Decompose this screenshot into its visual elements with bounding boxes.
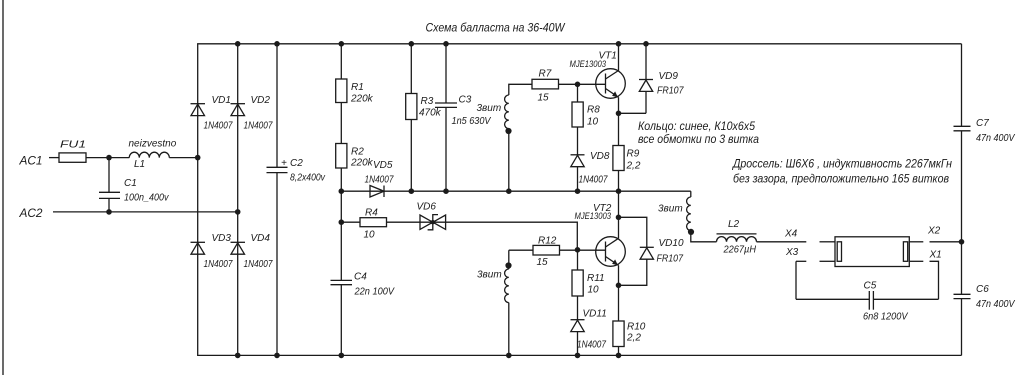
- svg-text:2,2: 2,2: [626, 333, 641, 344]
- svg-text:FU1: FU1: [60, 140, 86, 151]
- winding w3 (3 turns, VT2 drive): [477, 250, 509, 355]
- junction VD4 bottom bus: [235, 353, 241, 359]
- svg-text:все обмотки по 3 витка: все обмотки по 3 витка: [638, 132, 759, 146]
- svg-text:Дроссель: Ш6Х6 , индуктивность: Дроссель: Ш6Х6 , индуктивность 2267мкГн: [731, 157, 952, 171]
- svg-text:2267µH: 2267µH: [723, 245, 757, 256]
- diode VD11 1N4007: [571, 309, 607, 356]
- junction C2 top bus: [274, 41, 280, 47]
- junction R3 top bus: [409, 41, 415, 47]
- svg-text:10: 10: [587, 117, 599, 128]
- svg-text:Кольцо: синее, К10х6х5: Кольцо: синее, К10х6х5: [638, 119, 755, 133]
- svg-text:C6: C6: [976, 284, 989, 295]
- junction VD2 top bus: [235, 41, 241, 47]
- wire VT2 collector: [618, 217, 620, 238]
- resistor R8 10: [572, 84, 600, 155]
- capacitor C3 1n5 630V: [435, 44, 492, 191]
- transistor VT2 MJE13003: [575, 203, 626, 266]
- resistor R7 15: [532, 79, 559, 89]
- diode VD9 FR107: [639, 44, 684, 114]
- wire VT2 emitter to node: [618, 265, 620, 285]
- resistor R9 2,2: [613, 113, 641, 191]
- junction R4 branch: [339, 219, 345, 225]
- capacitor C1: [99, 158, 169, 212]
- diode VD4 1N4007: [231, 233, 273, 270]
- svg-text:1N4007: 1N4007: [365, 174, 394, 185]
- svg-text:15: 15: [538, 92, 550, 103]
- svg-text:8,2x400v: 8,2x400v: [290, 173, 326, 184]
- svg-text:AC1: AC1: [19, 154, 43, 168]
- svg-text:1N4007: 1N4007: [579, 174, 608, 185]
- svg-text:FR107: FR107: [657, 86, 684, 97]
- wire VT1 collector to top bus: [618, 44, 620, 71]
- junction midline/R3: [409, 188, 415, 194]
- transistor VT1 MJE13003: [570, 51, 626, 99]
- resistor R1 220k: [336, 79, 347, 103]
- svg-text:1N4007: 1N4007: [244, 259, 273, 270]
- wire X3 to C5 loop: [795, 261, 797, 299]
- diode VD3 1N4007: [191, 233, 233, 270]
- svg-text:47n 400V: 47n 400V: [976, 133, 1016, 144]
- wire emitter node to VD9: [619, 112, 647, 114]
- wire top bus / left bridge column / bottom bus: [198, 44, 962, 356]
- junction VT1 base / R8: [575, 82, 581, 88]
- resistor R12 15: [533, 245, 560, 255]
- junction VT2 base: [575, 247, 581, 253]
- wire L2 to X4: [757, 241, 807, 243]
- wire R1 to R2: [340, 103, 342, 144]
- svg-text:FR107: FR107: [657, 254, 684, 265]
- svg-text:1n5 630V: 1n5 630V: [452, 116, 492, 127]
- svg-text:470k: 470k: [419, 108, 442, 119]
- junction AC2/bridge: [235, 209, 241, 215]
- lamp EL1: [820, 237, 924, 267]
- svg-text:C5: C5: [864, 280, 877, 291]
- junction midline/R2 column: [339, 188, 345, 194]
- svg-text:1N4007: 1N4007: [577, 340, 606, 351]
- junction C2 bottom bus: [274, 353, 280, 359]
- wire FU1 to C1 node: [86, 157, 129, 159]
- svg-text:X2: X2: [927, 225, 941, 236]
- inductor L1: [129, 152, 169, 157]
- svg-text:10: 10: [588, 285, 600, 296]
- svg-text:6n8 1200V: 6n8 1200V: [863, 312, 909, 323]
- svg-text:X3: X3: [785, 247, 799, 258]
- resistor R4 10: [360, 218, 387, 227]
- svg-text:VD4: VD4: [251, 233, 271, 244]
- svg-text:L1: L1: [134, 159, 145, 170]
- svg-text:R7: R7: [539, 68, 552, 79]
- svg-text:neizvestno: neizvestno: [129, 139, 177, 150]
- diode VD1 1N4007: [191, 95, 233, 132]
- svg-text:C3: C3: [459, 94, 472, 105]
- junction midline/VD8: [575, 188, 581, 194]
- svg-text:C1: C1: [124, 178, 137, 189]
- svg-text:MJE13003: MJE13003: [575, 210, 612, 221]
- wire R4 branch vertical: [340, 191, 342, 222]
- phase dot w2: [688, 229, 694, 235]
- resistor R10 2,2: [613, 285, 646, 355]
- wire R7 to VT1 base: [559, 83, 606, 85]
- junction AC1/bridge: [195, 155, 201, 161]
- svg-text:1N4007: 1N4007: [204, 121, 233, 132]
- svg-text:220k: 220k: [350, 94, 374, 105]
- wire R12 to VT2 base: [560, 249, 606, 251]
- junction R1 top bus: [339, 41, 345, 47]
- wire R1/R2 column top: [340, 44, 342, 79]
- svg-text:3вит: 3вит: [477, 269, 502, 280]
- inductor L2 2267uH: [717, 219, 757, 256]
- svg-text:15: 15: [537, 257, 549, 268]
- wire X2 to right bus: [930, 241, 962, 243]
- svg-text:R1: R1: [351, 82, 364, 93]
- svg-text:R9: R9: [627, 149, 640, 160]
- junction w3 bottom bus: [506, 353, 512, 359]
- capacitor C5 6n8 1200V: [796, 280, 939, 322]
- svg-text:X1: X1: [929, 249, 942, 260]
- wire VT1 emitter to node: [618, 97, 620, 113]
- svg-text:100n_400v: 100n_400v: [124, 193, 169, 204]
- diac VD6: [417, 202, 446, 230]
- svg-text:VD2: VD2: [251, 95, 271, 106]
- svg-text:VD11: VD11: [583, 309, 607, 320]
- wire X3 stub: [796, 260, 806, 262]
- junction C1/AC2: [106, 209, 112, 215]
- svg-text:R2: R2: [351, 147, 364, 158]
- diode VD2 1N4007: [231, 95, 273, 132]
- junction R10 bottom bus: [616, 353, 622, 359]
- svg-text:MJE13003: MJE13003: [570, 58, 607, 69]
- svg-text:C4: C4: [354, 272, 367, 283]
- wire R4 row left: [341, 221, 360, 223]
- svg-text:без зазора, предположительно 1: без зазора, предположительно 165 витков: [733, 172, 949, 186]
- svg-text:Схема балласта на 36-40W: Схема балласта на 36-40W: [426, 20, 566, 34]
- wire midline (half-bridge midpoint): [341, 190, 691, 192]
- diode VD8 1N4007: [571, 151, 610, 191]
- wire VT2 collector node to VD10: [619, 217, 647, 247]
- svg-text:R4: R4: [365, 208, 378, 219]
- svg-text:C2: C2: [290, 158, 303, 169]
- wire AC1 input: [49, 157, 59, 159]
- svg-text:C7: C7: [976, 118, 989, 129]
- winding w2 (3 turns, output): [658, 191, 717, 242]
- junction VD9 top bus: [643, 41, 649, 47]
- junction C4 bottom bus: [339, 353, 345, 359]
- diode VD10 FR107: [619, 238, 684, 285]
- svg-text:R10: R10: [627, 322, 646, 333]
- capacitor C6 47n 400V: [954, 284, 1016, 310]
- junction AC1/C1: [106, 155, 112, 161]
- resistor R3 470k: [406, 44, 442, 191]
- wire right bus upper (top bus to C7): [961, 44, 963, 127]
- phase dot w3: [505, 262, 511, 268]
- junction VT1 collector top bus: [616, 41, 622, 47]
- wire right bus lower (C6 to bottom bus): [961, 299, 963, 356]
- svg-text:2,2: 2,2: [626, 161, 641, 172]
- svg-text:220k: 220k: [350, 158, 374, 169]
- resistor R11 10: [572, 250, 605, 320]
- svg-text:R3: R3: [421, 96, 434, 107]
- wire AC2 input: [53, 211, 238, 213]
- wire R4 to VD6 to VT2 base: [387, 222, 578, 250]
- wire R2 to midline: [340, 168, 342, 191]
- svg-text:R11: R11: [587, 273, 605, 284]
- diode VD5 1N4007: [365, 160, 394, 197]
- svg-text:L2: L2: [728, 219, 740, 230]
- capacitor C7 47n 400V: [954, 118, 1016, 144]
- svg-text:AC2: AC2: [19, 206, 43, 220]
- fuse FU1: [59, 153, 86, 162]
- svg-text:47n 400V: 47n 400V: [976, 299, 1016, 310]
- junction midline/R9-VT2: [616, 188, 622, 194]
- wire right bridge column (VD2/VD4): [237, 44, 239, 356]
- svg-text:VD10: VD10: [659, 238, 684, 249]
- svg-text:3вит: 3вит: [658, 204, 683, 215]
- junction VT2 emitter node: [616, 283, 622, 289]
- svg-text:1N4007: 1N4007: [244, 121, 273, 132]
- svg-text:+: +: [281, 158, 287, 169]
- junction VT2 collector node: [616, 215, 622, 221]
- svg-text:VD8: VD8: [590, 151, 610, 162]
- wire L1 to bridge: [169, 157, 197, 159]
- capacitor C4: [331, 222, 396, 355]
- svg-text:R8: R8: [587, 105, 600, 116]
- svg-text:X4: X4: [784, 228, 798, 239]
- capacitor C2 electrolytic: [267, 44, 326, 356]
- junction VD11 bottom bus: [575, 353, 581, 359]
- wire midline to VT2 collector node: [618, 191, 620, 217]
- phase dot w1: [505, 128, 511, 134]
- junction X2 right bus: [959, 239, 965, 245]
- svg-text:3вит: 3вит: [477, 103, 502, 114]
- svg-text:VD6: VD6: [417, 202, 437, 213]
- winding w1 (3 turns, VT1 drive): [477, 84, 533, 191]
- junction midline/winding w1: [506, 188, 512, 194]
- page border left edge: [2, 0, 4, 375]
- junction C3 top bus: [443, 41, 449, 47]
- svg-text:VD1: VD1: [212, 95, 231, 106]
- svg-text:22n 100V: 22n 100V: [354, 287, 396, 298]
- svg-text:R12: R12: [538, 235, 557, 246]
- svg-text:VD3: VD3: [212, 233, 232, 244]
- svg-text:1N4007: 1N4007: [204, 259, 233, 270]
- junction midline/C3: [443, 188, 449, 194]
- resistor R2 220k: [336, 144, 347, 169]
- svg-text:10: 10: [364, 230, 376, 241]
- junction VT1 emitter node: [616, 111, 622, 117]
- wire right bus middle (C7 to C6): [961, 131, 963, 294]
- wire w3 to R12: [509, 249, 533, 251]
- svg-text:VD5: VD5: [373, 160, 393, 171]
- wire X1 to C5 loop: [930, 261, 939, 299]
- svg-text:VD9: VD9: [659, 71, 679, 82]
